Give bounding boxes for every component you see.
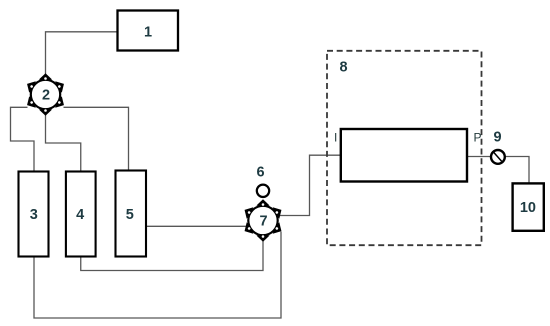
svg-text:5: 5 <box>126 207 134 223</box>
reactor (box inside enclosure 8) <box>341 129 467 182</box>
wire valve V2 lower-left port to column 3 top <box>11 107 35 171</box>
wire column 5 right side to valve V7 lower-left port <box>147 225 250 227</box>
svg-text:8: 8 <box>339 60 347 76</box>
svg-text:I: I <box>334 130 337 144</box>
wire box1 to valve V2 top <box>46 32 118 75</box>
svg-text:4: 4 <box>76 207 84 223</box>
wire valve V7 upper-right port to reactor inlet I <box>279 155 341 215</box>
svg-text:3: 3 <box>30 207 38 223</box>
svg-text:1: 1 <box>144 25 152 41</box>
column 3 <box>19 172 49 257</box>
valve 2 (6-port valve) <box>24 73 67 116</box>
wire valve V2 lower-right port to column 5 top <box>64 107 129 170</box>
svg-text:10: 10 <box>520 200 536 216</box>
box 10 <box>513 183 544 230</box>
svg-text:7: 7 <box>259 214 267 230</box>
wire reactor outlet P through valve 9 to box 10 <box>467 157 529 184</box>
column 4 <box>66 172 96 257</box>
wire column 3 bottom to valve V7 lower-right port <box>34 232 281 319</box>
wire valve V2 bottom port to column 4 top <box>46 114 81 172</box>
gauge 6 (small circle on valve 7) <box>257 185 269 197</box>
svg-text:2: 2 <box>42 88 50 104</box>
wire column 4 bottom to valve V7 bottom port <box>81 240 263 271</box>
dashed enclosure 8 <box>327 51 482 245</box>
svg-text:6: 6 <box>256 165 264 181</box>
valve 7 (6-port valve) <box>241 199 284 242</box>
svg-text:P: P <box>473 130 481 144</box>
svg-text:9: 9 <box>493 130 501 146</box>
column 5 <box>116 171 147 257</box>
valve 9 (circle with diagonal) <box>491 150 505 164</box>
box 1 <box>118 11 179 51</box>
